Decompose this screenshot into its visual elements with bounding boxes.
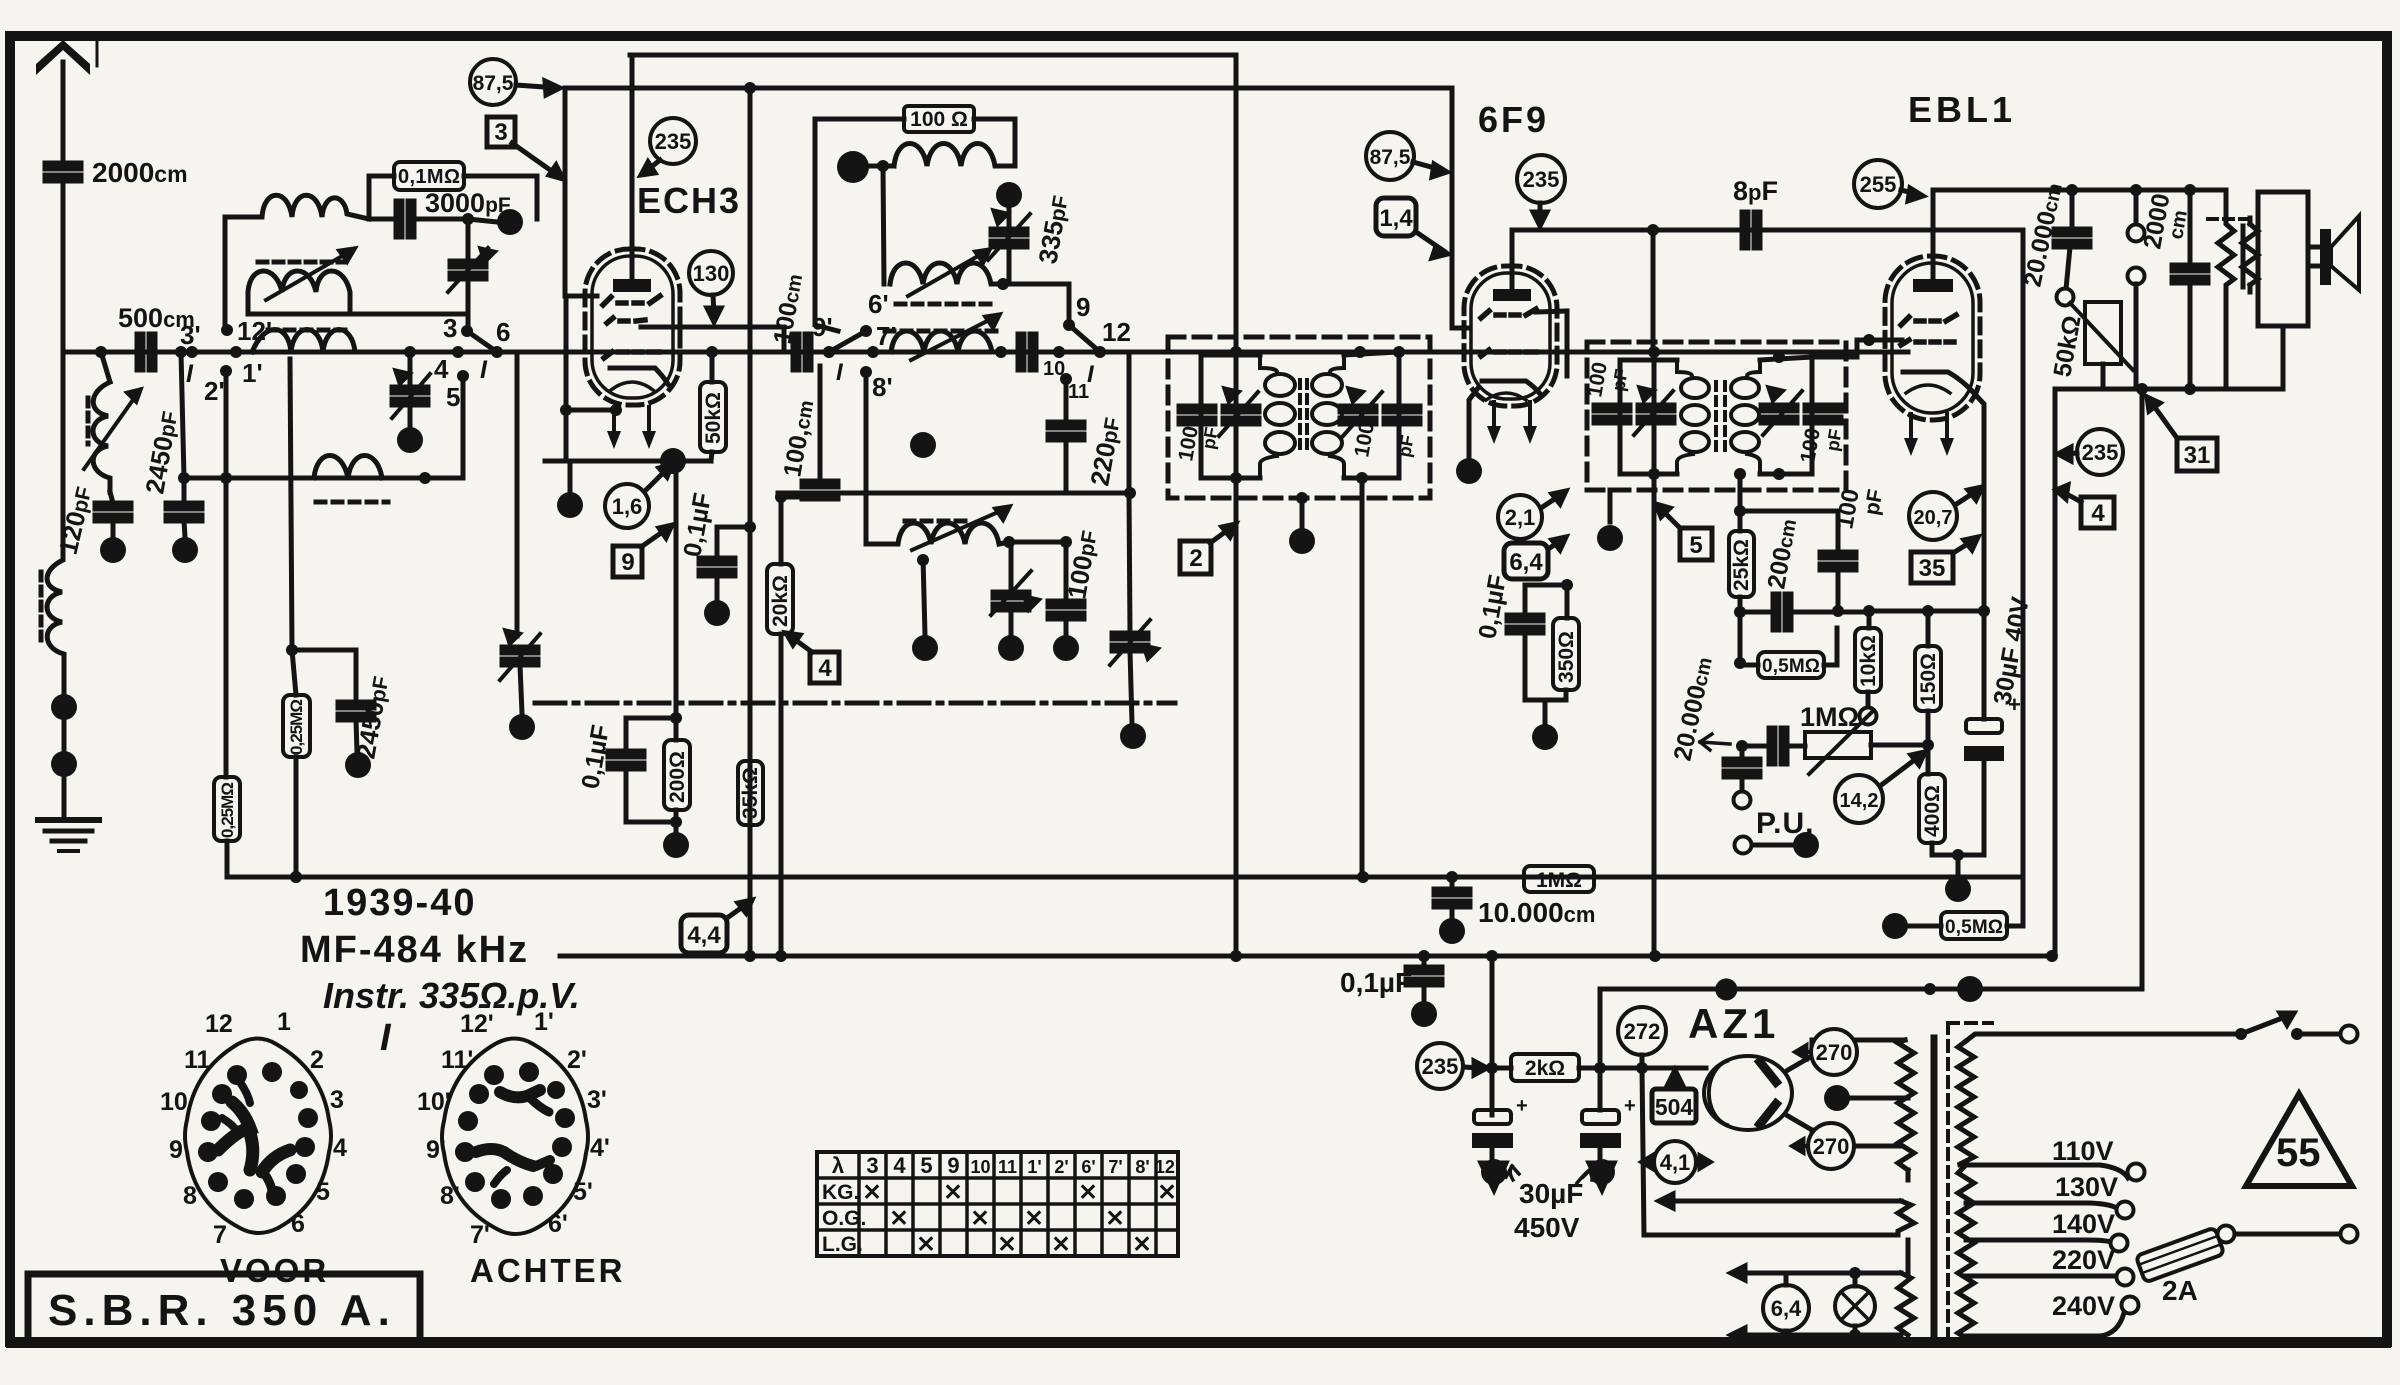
table X marks OG row <box>889 1205 1124 1231</box>
tap 220V <box>1966 1274 2117 1279</box>
junction osc coil out <box>997 278 1009 290</box>
svg-text:✕: ✕ <box>970 1205 989 1231</box>
wire 5 down <box>461 376 466 478</box>
socket ACHTER pins <box>455 1062 575 1209</box>
parallel RC 200 Ohm + 0,1uF <box>626 461 676 748</box>
svg-text:4: 4 <box>2091 500 2105 527</box>
junction bus 425 <box>419 472 431 484</box>
svg-text:110V: 110V <box>2052 1136 2114 1166</box>
resistor 0,5MOhm output <box>1941 912 2007 939</box>
boxed 35 <box>1911 552 1953 583</box>
svg-text:✕: ✕ <box>1024 1205 1043 1231</box>
circled 1,6 <box>605 484 649 528</box>
svg-text:4': 4' <box>590 1134 610 1162</box>
svg-text:I: I <box>380 1017 392 1059</box>
svg-text:8': 8' <box>872 372 893 402</box>
blob cathode network <box>1945 876 1971 902</box>
svg-text:10: 10 <box>970 1157 990 1177</box>
capacitor 10000cm <box>1450 877 1455 886</box>
svg-text:2: 2 <box>310 1046 324 1074</box>
svg-text:87,5: 87,5 <box>473 72 514 95</box>
boxed 3 <box>487 117 515 147</box>
capacitor 2450pF second <box>292 650 356 700</box>
tube EBL1 dashed envelope <box>1885 256 1980 420</box>
ECH3 heater arrow right <box>642 407 656 449</box>
IF2 coil left <box>1677 360 1692 376</box>
speaker dashed link <box>2208 217 2252 221</box>
wire: input coil bus y478 <box>226 476 463 481</box>
ECH3 grid row 1 <box>603 296 660 305</box>
jack terminals 2000cm <box>2134 190 2139 224</box>
speaker horn <box>2331 216 2359 290</box>
arrow 4 to 20k <box>790 636 812 652</box>
blob 6F9 cathode <box>1456 458 1482 484</box>
IF1 cap fixed left 100pF <box>1179 406 1215 424</box>
svg-text:9: 9 <box>1076 292 1090 322</box>
svg-text:MF-484 kHz: MF-484 kHz <box>300 929 529 971</box>
ECH3 triode grid tap wire <box>641 327 784 352</box>
svg-text:5': 5' <box>573 1178 593 1206</box>
electrolytic 30uF 40V <box>1982 611 1987 719</box>
resistor 0,25MOhm second <box>283 695 310 757</box>
svg-text:ECH3: ECH3 <box>637 180 741 221</box>
AZ1 anode wires <box>1788 1056 1812 1130</box>
wire to 100pF screen cap <box>1740 511 1838 551</box>
svg-text:pF: pF <box>1822 428 1846 453</box>
ECH3 cathode <box>610 368 668 384</box>
EBL1 grid row 1 <box>1901 315 1956 325</box>
output transformer box <box>2258 192 2308 326</box>
core bar speaker <box>2241 226 2246 287</box>
svg-text:30µF: 30µF <box>1519 1178 1583 1209</box>
wire IF2 B+ from rail <box>1651 230 1656 352</box>
EBL1 grid row 2 <box>1901 340 1954 345</box>
primary top wire to switch <box>1966 1034 2241 1041</box>
bottom border emphasis <box>10 1340 2387 1348</box>
svg-text:12': 12' <box>1155 1157 1179 1177</box>
node junction main rail left <box>95 346 107 358</box>
wire: inner top rail ECH3 box <box>630 53 1236 58</box>
table row labels <box>822 1181 866 1256</box>
svg-text:6': 6' <box>548 1210 568 1238</box>
resistor 0,25MOhm first <box>214 777 240 841</box>
IF2 core dashes <box>1714 382 1718 450</box>
svg-text:5: 5 <box>316 1178 330 1206</box>
circled 130 <box>689 251 733 295</box>
blade 9-12 <box>1069 325 1100 352</box>
svg-text:6,4: 6,4 <box>1771 1296 1802 1321</box>
svg-text:✕: ✕ <box>862 1179 881 1205</box>
speaker cone bar <box>2320 229 2331 285</box>
resistor 150 Ohm <box>1915 646 1941 711</box>
10k to pot terminal <box>1866 692 1871 708</box>
svg-text:+: + <box>1624 1095 1636 1117</box>
field coil zigzag 1 <box>2218 190 2234 389</box>
wire top coil tap down <box>883 166 884 284</box>
svg-text:✕: ✕ <box>1157 1179 1176 1205</box>
supply node wire <box>1490 956 1495 1115</box>
svg-text:3': 3' <box>587 1086 607 1114</box>
terminal 4 <box>452 346 464 358</box>
electrolytic 30uF a <box>1490 1100 1495 1110</box>
ground symbol <box>38 817 99 823</box>
blob 8' line <box>910 432 936 458</box>
svg-text:8': 8' <box>440 1182 460 1210</box>
arrow 235 right <box>2064 453 2077 454</box>
svg-text:35kΩ: 35kΩ <box>739 767 762 819</box>
contact 12 <box>1094 346 1106 358</box>
wire: ECH3 cathode bus y461 <box>545 459 711 464</box>
svg-text:+: + <box>1516 1095 1528 1117</box>
IF2 cap fixed left <box>1594 405 1630 423</box>
waveband table grid <box>817 1152 1178 1256</box>
antenna <box>36 40 90 75</box>
6F9 cathode lead <box>1469 388 1478 458</box>
mains switch <box>2235 1028 2247 1040</box>
blob 30uF a <box>1481 1163 1506 1190</box>
blob osc top <box>837 151 869 183</box>
svg-text:4,1: 4,1 <box>1660 1150 1691 1175</box>
svg-text:55: 55 <box>2276 1131 2321 1175</box>
trimmer on 6-7 line <box>502 647 538 665</box>
svg-text:2,1: 2,1 <box>1505 505 1536 530</box>
junction 2450 branch <box>175 346 187 358</box>
wire: anode feed rail y88 <box>565 86 1452 91</box>
junction rail right of coil <box>995 346 1007 358</box>
svg-text:2000cm: 2000cm <box>92 157 188 188</box>
svg-text:0,25MΩ: 0,25MΩ <box>218 782 237 838</box>
arrow 14,2 <box>1880 755 1921 786</box>
svg-text:150Ω: 150Ω <box>1917 653 1940 705</box>
100 Ohm loop wiring <box>815 119 904 331</box>
electrolytic 30uF b <box>1598 1068 1603 1110</box>
capacitor 220pF <box>1064 379 1069 418</box>
socket ACHTER inner links <box>476 1090 550 1184</box>
svg-text:4: 4 <box>893 1153 906 1178</box>
svg-text:1MΩ: 1MΩ <box>1800 702 1859 732</box>
EBL1 anode riser <box>1931 190 1936 282</box>
svg-text:9: 9 <box>169 1136 183 1164</box>
IF2 trimmer right <box>1761 405 1797 423</box>
wire 6-7 line down <box>515 352 520 636</box>
pot to 14,2 node <box>1871 743 1931 748</box>
svg-text:8': 8' <box>1135 1157 1149 1177</box>
resistor 0,1MOhm box <box>394 162 464 190</box>
svg-text:λ: λ <box>832 1153 844 1178</box>
band coil on rail <box>252 330 361 353</box>
contact 9 <box>1063 319 1075 331</box>
svg-text:9: 9 <box>621 549 634 576</box>
transformer core <box>1931 1038 1938 1340</box>
bottom rail junction dots <box>744 950 756 962</box>
svg-text:450V: 450V <box>1514 1212 1580 1243</box>
svg-text:2': 2' <box>1054 1157 1068 1177</box>
capacitor 100cm second <box>818 366 823 478</box>
SBR title box <box>28 1274 420 1342</box>
IF transformer 2 dashed box <box>1587 342 1846 490</box>
svg-text:7': 7' <box>470 1221 490 1249</box>
arrow 9 <box>641 528 668 547</box>
blob 200 Ohm bottom <box>663 832 689 858</box>
svg-text:4,4: 4,4 <box>687 922 721 949</box>
arrow 2,1 <box>1541 494 1562 508</box>
tube EBL1 inner glass <box>1892 263 1973 413</box>
svg-text:I: I <box>480 356 488 384</box>
svg-text:1,4: 1,4 <box>1379 205 1413 232</box>
svg-text:270: 270 <box>1813 1134 1850 1159</box>
svg-text:25kΩ: 25kΩ <box>1730 539 1753 591</box>
svg-text:11: 11 <box>184 1046 211 1074</box>
svg-text:1: 1 <box>277 1008 291 1036</box>
variable osc padder coil <box>248 271 350 314</box>
circled 6,4 <box>1763 1285 1809 1331</box>
hum coil zigzag 2 <box>2242 224 2258 285</box>
cathode left leg <box>566 296 616 410</box>
IF2 ground stub blob <box>1608 490 1613 522</box>
svg-text:✕: ✕ <box>1078 1179 1097 1205</box>
trimmer mid <box>993 592 1029 610</box>
junction AVC x296 <box>290 871 302 883</box>
svg-text:4: 4 <box>434 354 449 384</box>
switch blade 3-6 <box>467 331 497 352</box>
svg-text:ACHTER: ACHTER <box>470 1252 626 1289</box>
wire: long vertical x753 <box>748 88 753 956</box>
tube 6F9 dashed envelope <box>1464 266 1557 406</box>
PU blob <box>1793 832 1819 858</box>
resistor 20kOhm <box>767 564 793 634</box>
svg-text:AZ1: AZ1 <box>1688 1000 1779 1047</box>
socket VOOR pins <box>198 1062 318 1209</box>
svg-text:0,5MΩ: 0,5MΩ <box>1762 656 1820 677</box>
svg-text:6F9: 6F9 <box>1478 99 1549 140</box>
dashed antenna coil lower <box>47 352 64 692</box>
EBL1 heater arrows <box>1904 414 1918 456</box>
switch contact 9' <box>823 346 835 358</box>
svg-text:O.G.: O.G. <box>822 1207 866 1230</box>
AZ1 filament winding <box>1906 1170 1911 1180</box>
svg-text:4: 4 <box>818 655 832 682</box>
svg-text:12: 12 <box>1102 317 1131 347</box>
svg-text:pF: pF <box>1860 487 1887 516</box>
resistor 400 Ohm <box>1919 774 1945 843</box>
IF transformer 1 dashed box <box>1168 337 1430 498</box>
wire to switch 9 <box>1003 284 1069 325</box>
6F9 heater arrows <box>1487 402 1501 444</box>
heater wire bottom <box>1737 1333 1901 1338</box>
svg-text:10.000cm: 10.000cm <box>1478 897 1595 928</box>
arrow 235 supply <box>1464 1067 1478 1068</box>
AZ1 enclosure left wire / 4V filament leads <box>1642 1068 1898 1235</box>
wire: oscillator bus y493 <box>778 491 1130 496</box>
svg-text:10': 10' <box>417 1088 451 1116</box>
IF2 junctions <box>1648 346 1660 358</box>
blob 6-7 <box>509 714 535 740</box>
screen node <box>1561 579 1573 591</box>
6F9 cathode <box>1482 381 1541 395</box>
resistor 100 Ohm box <box>904 106 974 132</box>
terminal 3' <box>186 346 198 358</box>
svg-text:6': 6' <box>1081 1157 1095 1177</box>
dashed core 7' coil <box>885 329 1000 334</box>
trimmer cap on osc line <box>450 261 486 279</box>
svg-text:1MΩ: 1MΩ <box>1536 869 1582 892</box>
svg-text:130: 130 <box>693 261 730 286</box>
blob cathode <box>557 492 583 518</box>
boxed 44 <box>681 915 727 953</box>
socket ACHTER labels <box>417 1008 610 1249</box>
arrow 6,4 <box>1548 540 1562 549</box>
arrow 4 right <box>2060 492 2081 502</box>
arrow 87,5 to rail <box>516 85 558 88</box>
speaker bottom wire <box>2098 387 2283 392</box>
svg-text:20kΩ: 20kΩ <box>769 575 792 627</box>
wire 2k to AZ1 <box>1658 1066 1706 1071</box>
wire: main signal rail y352 <box>63 350 1908 355</box>
svg-text:235: 235 <box>2082 440 2119 465</box>
svg-text:1939-40: 1939-40 <box>323 882 476 924</box>
6F9 anode riser <box>1510 230 1515 292</box>
EBL1 cathode lead to right <box>1973 392 1984 611</box>
terminal 6 <box>491 346 503 358</box>
svg-text:5: 5 <box>1689 532 1702 559</box>
contact 10 <box>1053 346 1065 358</box>
IF1 cap fixed right 100pF <box>1384 406 1420 424</box>
ECH3 grid row 3 (signal grid) <box>604 352 659 358</box>
capacitor 2000cm antenna <box>45 163 81 181</box>
arrows 20000cm <box>1700 734 1730 750</box>
coil 7' on rail <box>891 331 1001 352</box>
junction on y88 rail <box>744 82 756 94</box>
boxed 4 right <box>2081 497 2114 528</box>
transformer dashed shield <box>1948 1023 1992 1345</box>
band switch terminal 12' <box>221 324 233 336</box>
svg-text:272: 272 <box>1624 1019 1661 1044</box>
svg-text:2kΩ: 2kΩ <box>1525 1057 1565 1080</box>
trimmer on x1129 low <box>1112 633 1148 651</box>
rectifier AZ1 bulb <box>1704 1056 1792 1130</box>
wire: AZ1 top feed y989 <box>1600 989 2138 1068</box>
EBL1 cathode <box>1903 372 1973 392</box>
antenna top coil <box>225 195 369 219</box>
arrow 235 down <box>1538 203 1543 218</box>
blob below trimmer <box>397 427 423 453</box>
boxed 4 osc <box>810 652 839 683</box>
socket ACHTER outline <box>442 1039 588 1235</box>
svg-text:400Ω: 400Ω <box>1921 785 1944 837</box>
wire 12 to down <box>1100 352 1129 493</box>
circled 20,7 <box>1909 492 1957 540</box>
series cap to pot <box>1769 728 1787 764</box>
resistor 2kOhm <box>1511 1054 1579 1081</box>
svg-text:3: 3 <box>330 1086 344 1114</box>
wire x565 anode/grid feed <box>565 88 597 296</box>
arrow 2 <box>1210 527 1232 543</box>
IF1 coil right <box>1330 355 1344 372</box>
circled 235 6F9 <box>1517 155 1565 203</box>
capacitor 500cm <box>137 334 155 370</box>
wire 8' down to coil3 <box>864 372 869 544</box>
svg-text:✕: ✕ <box>889 1205 908 1231</box>
svg-text:235: 235 <box>1422 1054 1459 1079</box>
junction bus 226 <box>220 472 232 484</box>
capacitor 3000pF <box>396 201 414 237</box>
IF2 bottom wires <box>1620 472 1677 477</box>
circled 272 <box>1618 1007 1666 1055</box>
tap 110V <box>1966 1165 2128 1178</box>
svg-text:20,7: 20,7 <box>1914 507 1953 529</box>
svg-text:1,6: 1,6 <box>612 494 643 519</box>
svg-text:10: 10 <box>160 1088 188 1116</box>
arrow 1,4 <box>1416 232 1444 251</box>
blob 30uF b <box>1589 1163 1614 1190</box>
arrow 31 <box>2151 402 2177 438</box>
svg-text:5: 5 <box>920 1153 932 1178</box>
blob 335pF top <box>996 182 1022 208</box>
wire antenna down <box>61 182 66 352</box>
svg-text:8: 8 <box>183 1182 197 1210</box>
svg-text:6,4: 6,4 <box>1509 549 1543 576</box>
svg-text:255: 255 <box>1860 172 1897 197</box>
contact 11 <box>1060 373 1072 385</box>
capacitor 0,1uF screen <box>1525 585 1567 612</box>
osc feedback coil <box>866 523 1009 544</box>
wire padder bottom bus <box>248 312 467 317</box>
svg-text:100 Ω: 100 Ω <box>910 108 968 131</box>
svg-text:350Ω: 350Ω <box>1555 631 1578 683</box>
IF1 center tap <box>1300 498 1305 528</box>
boxed 9 <box>613 546 642 577</box>
arrow 44 <box>727 903 748 918</box>
blade 9'-6' <box>829 331 866 352</box>
svg-text:35: 35 <box>1919 555 1946 582</box>
wire: IF2 left vertical x1654 <box>1652 352 1657 956</box>
wire y611 right <box>1869 609 1984 614</box>
wire: 6F9 anode rail y230 <box>1512 228 2023 233</box>
IF1 junctions <box>1230 346 1242 358</box>
resistor 35kOhm <box>738 761 763 825</box>
HT winding top loop <box>1812 1040 1905 1056</box>
svg-text:240V: 240V <box>2052 1291 2115 1321</box>
svg-text:✕: ✕ <box>943 1179 962 1205</box>
circled 270 bottom <box>1808 1123 1854 1169</box>
IF1 bottom wire <box>1201 476 1260 481</box>
wire: grid line vertical x2023 <box>2007 230 2023 926</box>
svg-text:pF: pF <box>1608 368 1632 393</box>
svg-text:1': 1' <box>242 358 263 388</box>
dashed core band coil <box>268 328 352 333</box>
svg-text:I: I <box>186 360 194 388</box>
svg-text:0,1µF: 0,1µF <box>1340 967 1412 998</box>
resistor 1MOhm AVC <box>1524 866 1594 892</box>
IF2 trimmer left <box>1638 405 1674 423</box>
arrow 235 to anode lead <box>645 160 660 172</box>
svg-text:3: 3 <box>443 313 457 343</box>
resistor 200 Ohm <box>664 740 690 810</box>
IF2 top wires <box>1620 358 1677 363</box>
circled 255 <box>1854 160 1902 208</box>
resistor 50kOhm <box>700 382 726 452</box>
boxed 504 <box>1652 1089 1696 1123</box>
svg-text:220V: 220V <box>2052 1245 2115 1275</box>
capacitor 2450pF first <box>166 503 202 521</box>
IF2 cap fixed right <box>1805 405 1841 423</box>
svg-text:1': 1' <box>1027 1157 1041 1177</box>
IF1 right branch <box>1397 352 1402 478</box>
junction rail x410 <box>404 346 416 358</box>
IF1 trimmer left <box>1223 406 1259 424</box>
svg-text:0,5MΩ: 0,5MΩ <box>1945 917 2003 938</box>
blob screen network <box>1532 724 1558 750</box>
